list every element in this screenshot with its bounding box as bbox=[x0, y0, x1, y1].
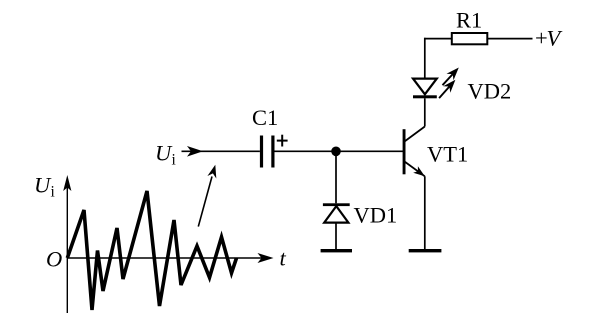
wire capacitor to base bbox=[275, 150, 404, 152]
svg-text:VD2: VD2 bbox=[468, 79, 512, 104]
wire LED to corner bbox=[424, 38, 426, 79]
svg-text:VD1: VD1 bbox=[354, 203, 398, 228]
svg-text:U: U bbox=[155, 141, 173, 166]
LED VD2 bbox=[413, 79, 437, 99]
node junction dot bbox=[331, 147, 341, 157]
svg-text:i: i bbox=[51, 184, 56, 201]
wire emitter to ground bbox=[424, 176, 426, 250]
svg-text:i: i bbox=[172, 152, 177, 169]
polarity + bbox=[277, 135, 288, 147]
waveform horizontal axis bbox=[67, 253, 273, 263]
label +V bbox=[535, 26, 563, 51]
svg-text:O: O bbox=[46, 247, 62, 272]
capacitor C1 bbox=[260, 136, 275, 168]
ground (emitter) bbox=[409, 249, 442, 252]
wire node to VD1 bbox=[335, 151, 337, 203]
svg-text:VT1: VT1 bbox=[427, 142, 468, 167]
wire VD1 to ground bbox=[335, 223, 337, 250]
waveform signal bbox=[67, 191, 236, 310]
arrow on input wire bbox=[187, 146, 203, 157]
diode VD1 bbox=[323, 203, 350, 222]
wire input to capacitor bbox=[182, 150, 260, 152]
svg-text:t: t bbox=[280, 246, 287, 271]
annotation arrow to wire bbox=[198, 165, 216, 227]
label Ui (axis) bbox=[34, 173, 56, 201]
resistor R1 bbox=[452, 33, 488, 44]
LED light arrow 1 bbox=[443, 68, 459, 86]
label Ui (input signal) bbox=[155, 141, 177, 169]
svg-text:V: V bbox=[547, 26, 563, 51]
wire corner to resistor bbox=[424, 38, 452, 40]
wire resistor to +V bbox=[487, 38, 532, 40]
ground (VD1) bbox=[321, 249, 352, 252]
LED light arrow 2 bbox=[439, 80, 455, 98]
svg-text:U: U bbox=[34, 173, 52, 198]
svg-text:C1: C1 bbox=[252, 105, 278, 130]
waveform vertical axis bbox=[63, 175, 71, 313]
wire collector up to LED bbox=[424, 98, 426, 126]
transistor VT1 bbox=[403, 127, 425, 177]
svg-text:R1: R1 bbox=[456, 8, 482, 33]
